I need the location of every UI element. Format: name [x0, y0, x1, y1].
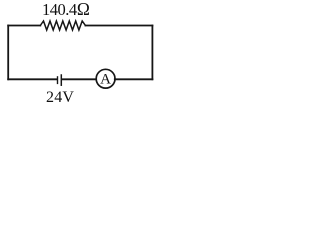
- wire left side: [7, 26, 9, 80]
- svg-text:A: A: [100, 71, 111, 87]
- wire bottom-right segment: [115, 78, 153, 80]
- wire bottom-left segment: [8, 78, 57, 80]
- wire top-left segment: [8, 25, 40, 27]
- battery B1 long plate: [60, 75, 62, 85]
- wire top-right segment: [85, 25, 152, 27]
- svg-text:140.4Ω: 140.4Ω: [42, 0, 90, 19]
- resistor R1: [40, 21, 85, 30]
- wire right side: [151, 26, 153, 80]
- battery B1 short plate: [57, 77, 59, 84]
- ammeter M1 body: [96, 69, 115, 88]
- wire battery to ammeter: [62, 78, 96, 80]
- svg-text:24V: 24V: [46, 89, 74, 106]
